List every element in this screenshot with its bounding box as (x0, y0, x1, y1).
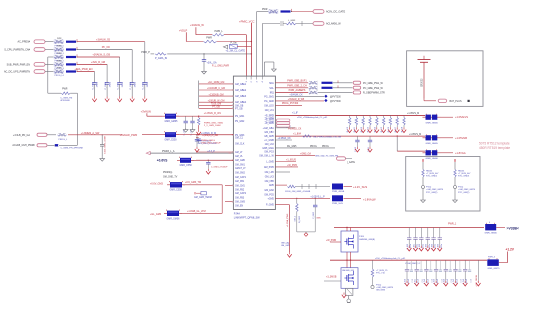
cap C81 (416, 260, 418, 269)
svg-text:GM_VL: GM_VL (235, 156, 244, 158)
svg-text:C_GM5: C_GM5 (92, 81, 94, 89)
cap C61 (369, 136, 371, 140)
svg-text:+3VALW_S5: +3VALW_S5 (96, 38, 111, 41)
rail2 wire (275, 135, 425, 137)
svg-text:100u: 100u (441, 244, 443, 248)
svg-text:+0.6VS: +0.6VS (157, 159, 168, 163)
RTC box (406, 157, 480, 212)
wire pin3 vert (256, 12, 258, 76)
svg-text:C_GM8: C_GM8 (130, 81, 132, 89)
battery box (407, 51, 483, 107)
cap C83b (440, 260, 442, 270)
svg-text:2R2u: 2R2u (122, 81, 124, 87)
svg-text:C_GM9: C_GM9 (143, 81, 145, 89)
wire (441, 137, 454, 139)
wire (296, 23, 313, 25)
wire (147, 115, 162, 117)
svg-text:+0.6_GM3_TM: +0.6_GM3_TM (185, 181, 201, 184)
arrow (464, 281, 466, 283)
svg-text:P_GMA_IN: P_GMA_IN (155, 57, 167, 60)
svg-text:PTC_710: PTC_710 (376, 273, 386, 275)
svg-text:PWR_P: PWR_P (141, 51, 150, 54)
jumper P_Sw (229, 44, 237, 48)
svg-text:+3VALW_PWR: +3VALW_PWR (120, 133, 138, 137)
wire (318, 91, 353, 93)
svg-text:2R2u: 2R2u (109, 81, 111, 87)
svg-text:GMGM6_GM: GMGM6_GM (342, 270, 354, 272)
cap C41 (192, 116, 194, 121)
IC top pin 1 (245, 76, 247, 79)
svg-text:c150_c78&battery-fab_CL_p01: c150_c78&battery-fab_CL_p01 (375, 257, 406, 260)
svg-text:+1.8GB_GL_LTM: +1.8GB_GL_LTM (187, 210, 206, 213)
cap C86 (464, 260, 466, 269)
svg-text:R_GBEPWRM_STR: R_GBEPWRM_STR (363, 91, 385, 94)
gnd diamond (304, 233, 308, 237)
junction (397, 135, 398, 136)
svg-text:P_GM5: P_GM5 (266, 205, 275, 207)
svg-text:+3_3MGB: +3_3MGB (326, 277, 337, 279)
svg-text:GM5_GM75: GM5_GM75 (488, 268, 501, 270)
svg-text:S_CPU_PWRBTN_CN#: S_CPU_PWRBTN_CN# (4, 49, 30, 52)
power arrow (119, 97, 121, 99)
svg-text:@PVT300: @PVT300 (330, 97, 341, 99)
wire gnd loop (263, 62, 265, 67)
svg-text:+3VL_GA: +3VL_GA (207, 61, 217, 64)
wire (45, 63, 54, 65)
svg-text:|_GATE: |_GATE (347, 161, 356, 164)
cap C84b (449, 260, 451, 270)
wire pin1 up (245, 35, 247, 76)
cap C83 (435, 260, 437, 269)
wire to power flag (77, 56, 120, 58)
wire L2 to IC (176, 134, 233, 136)
svg-text:+C100UB_GM: +C100UB_GM (208, 94, 223, 96)
svg-text:GM5_(A): GM5_(A) (281, 242, 289, 245)
capacitor C12 bank1 (119, 79, 121, 83)
cap C70 (408, 228, 410, 238)
svg-text:PWR_AGBEPS: PWR_AGBEPS (289, 89, 306, 92)
svg-text:+1.8VALW: +1.8VALW (363, 197, 376, 201)
wire (263, 67, 265, 76)
wire down (144, 42, 146, 79)
dual fet row C (423, 152, 441, 154)
wire (142, 134, 162, 136)
connector JO1 (313, 10, 324, 14)
power arrow (106, 97, 108, 99)
resistor R6 (58, 134, 67, 137)
resistor cluster (309, 87, 318, 90)
svg-text:PJ4A: PJ4A (234, 212, 240, 216)
svg-text:PROG: PROG (322, 146, 329, 148)
power arrow (198, 130, 200, 132)
svg-text:+3_3M_CL_GATE: +3_3M_CL_GATE (226, 50, 246, 53)
svg-text:ACIN_OC_GATE: ACIN_OC_GATE (326, 11, 345, 14)
svg-text:C_GM6: C_GM6 (105, 81, 107, 89)
cap C50 (100, 144, 104, 146)
cap C86b (469, 260, 471, 270)
junction (203, 53, 204, 54)
svg-text:+1.05VS_M: +1.05VS_M (407, 113, 419, 115)
rail2 res (303, 135, 312, 138)
cap C82 (425, 260, 427, 269)
Q2 bottom box (346, 288, 353, 295)
resistor R20 (196, 34, 212, 36)
svg-text:+3VALW_R_W5: +3VALW_R_W5 (288, 98, 305, 101)
svg-text:GM_GBE3: GM_GBE3 (235, 96, 247, 98)
arrow (425, 281, 427, 283)
svg-text:PWR_SUS: PWR_SUS (332, 203, 343, 205)
svg-text:GM3_GM1_2700UF: GM3_GM1_2700UF (201, 142, 221, 144)
junction (198, 116, 199, 117)
bead bar (322, 82, 333, 84)
svg-text:RTC_GM(2): RTC_GM(2) (426, 192, 438, 194)
svg-text:GMP_C550: GMP_C550 (165, 139, 178, 141)
svg-text:RTC_GM(2): RTC_GM(2) (458, 192, 470, 194)
wire tp 0 (275, 96, 324, 98)
wire PMIC vcc down (250, 26, 252, 76)
wire to power flag (77, 63, 107, 65)
gate arrow (223, 45, 227, 48)
wire 127.8 (275, 127, 295, 129)
arrow (416, 281, 418, 283)
svg-text:PWR: PWR (57, 53, 62, 55)
power arrow bottom (289, 252, 291, 254)
svg-text:T100_GM: T100_GM (211, 104, 221, 106)
pin tick (229, 152, 231, 154)
wire net2 (296, 186, 331, 188)
svg-text:2_V_GM3_100M: 2_V_GM3_100M (204, 125, 221, 127)
tp diamond (324, 95, 327, 98)
svg-text:+1.8VA_PWR: +1.8VA_PWR (286, 213, 289, 227)
svg-text:+3VALW_CK: +3VALW_CK (289, 94, 303, 97)
svg-text:+3VALW_W: +3VALW_W (190, 23, 204, 27)
wire L1 to IC (176, 115, 233, 117)
svg-text:AC_DC_UPS_PWRBTN: AC_DC_UPS_PWRBTN (4, 71, 30, 74)
wire (333, 87, 353, 89)
svg-text:+1.2V_SUS: +1.2V_SUS (353, 185, 367, 189)
svg-text:GM_PG3: GM_PG3 (264, 152, 274, 154)
svg-text:PC_GBE_PW1_W: PC_GBE_PW1_W (363, 82, 384, 85)
wire into Q1 (330, 241, 341, 243)
rail12 wire b (330, 259, 487, 261)
arrow (420, 246, 422, 248)
cap inline J7 (55, 144, 59, 146)
svg-text:+1.05ALVS: +1.05ALVS (455, 115, 468, 119)
svg-text:GM_GM3: GM_GM3 (235, 202, 246, 204)
svg-text:C_GM3_PH_4PF05N8: C_GM3_PH_4PF05N8 (61, 148, 84, 150)
bank arrow (396, 127, 398, 129)
RTC pull resistor 0 (422, 160, 424, 163)
svg-text:PWR_GBE_BUF1: PWR_GBE_BUF1 (287, 80, 307, 83)
svg-text:+VDLP: +VDLP (179, 29, 188, 33)
gnd (185, 128, 187, 130)
res network r1 (288, 185, 296, 188)
svg-text:GM_LDO: GM_LDO (264, 105, 274, 107)
wire down (106, 64, 108, 78)
inductor L2 (162, 134, 179, 136)
svg-text:GM_GBE4: GM_GBE4 (235, 102, 247, 104)
svg-text:GMR_GM06: GMR_GM06 (485, 232, 498, 234)
cap C85 (455, 260, 457, 269)
wire O2 (262, 23, 280, 25)
pink stub 0 (276, 119, 290, 121)
resistor R22 (151, 53, 155, 55)
wire right row 2 (275, 91, 308, 93)
bank resistor R50 (349, 115, 351, 117)
bank resistor R54 (376, 115, 378, 117)
wire 147.9 (275, 147, 335, 149)
svg-text:GMR_GM05: GMR_GM05 (426, 122, 439, 124)
ground (422, 198, 424, 200)
cap C60 (356, 136, 358, 140)
svg-text:+W_PWR: +W_PWR (326, 240, 336, 242)
svg-text:100u: 100u (435, 244, 437, 248)
inductor L1 (162, 115, 179, 117)
tp diamond (324, 99, 327, 102)
connector J2 (34, 48, 45, 52)
transistor Q2 (341, 268, 358, 289)
svg-text:GMGM6_GM(B): GMGM6_GM(B) (359, 239, 375, 241)
arrow (408, 246, 410, 248)
junction (196, 134, 197, 135)
svg-text:+3.3LB_PD_GA: +3.3LB_PD_GA (13, 134, 30, 137)
svg-text:GM_EN2: GM_EN2 (264, 190, 274, 192)
wire 172 (275, 171, 290, 173)
bank resistor R53 (369, 115, 371, 117)
svg-text:+C100UB_C_GM: +C100UB_C_GM (207, 88, 225, 90)
op IC U1 PMIC box (233, 76, 275, 209)
wire 204 from IC (275, 204, 289, 206)
resistor R8 (48, 92, 61, 94)
fet sw1 (485, 224, 496, 230)
cap C43 (196, 135, 198, 140)
main rail wire (275, 114, 425, 116)
wire down to J7 (76, 93, 78, 145)
svg-text:R100_GM_GM3_4.5GHB: R100_GM_GM3_4.5GHB (285, 191, 310, 193)
resistor R70 (372, 260, 374, 269)
svg-text:SDA: SDA (269, 82, 274, 85)
svg-text:5075 RT512 template: 5075 RT512 template (479, 142, 510, 146)
wire Q1 bottom (346, 252, 348, 268)
wire (45, 49, 54, 51)
inductor L3 (177, 159, 194, 161)
gnd (192, 128, 194, 130)
svg-text:PWR_4: PWR_4 (488, 257, 496, 259)
svg-text:GM_SW1: GM_SW1 (235, 165, 246, 167)
dual fet row B (423, 137, 441, 139)
svg-text:100u: 100u (422, 244, 424, 248)
wire Q1 top (346, 228, 348, 232)
fet sw2 (487, 259, 499, 266)
tick (454, 159, 456, 162)
bank resistor R52 (362, 115, 364, 117)
svg-text:GM_GB: GM_GB (235, 105, 244, 107)
bank resistor R51 (355, 115, 357, 117)
svg-text:GM5: GM5 (269, 185, 275, 187)
svg-text:SUB_PWR_PWR_EN: SUB_PWR_PWR_EN (7, 63, 31, 66)
bank arrow (362, 127, 364, 129)
bank arrow (403, 127, 405, 129)
svg-text:C_GM5: C_GM5 (313, 211, 315, 219)
svg-text:AC_PRES#: AC_PRES# (18, 41, 31, 44)
svg-text:PWR: PWR (57, 46, 62, 48)
arrow (415, 246, 417, 248)
svg-text:PS_GM1: PS_GM1 (235, 116, 245, 118)
wire to power flag (77, 41, 145, 43)
svg-text:+1.05VGB: +1.05VGB (455, 136, 467, 140)
vert resistor R30 (198, 116, 200, 117)
connector J5 (34, 70, 45, 74)
resistor+bead O1 (268, 9, 279, 13)
svg-text:GM_GM5: GM_GM5 (281, 245, 291, 247)
connector right 1 (353, 86, 361, 89)
resistor O2 (286, 22, 296, 25)
pink stub 2 (276, 125, 290, 127)
svg-text:GM_SW2: GM_SW2 (235, 172, 246, 174)
svg-text:GB_GM5: GB_GM5 (264, 136, 274, 138)
bank arrow (355, 127, 357, 129)
capacitor C20 (202, 59, 206, 61)
svg-text:GM_GM3_TERM: GM_GM3_TERM (194, 197, 212, 199)
wire (333, 82, 353, 84)
svg-text:4PF05N8: 4PF05N8 (60, 100, 70, 102)
svg-text:PROG: PROG (310, 146, 317, 148)
wire tp 1 (275, 100, 324, 102)
IC top pin 2 (250, 76, 252, 79)
svg-text:PWR: PWR (57, 61, 62, 63)
svg-text:GB_PWR3+16GA5_CW_GB: GB_PWR3+16GA5_CW_GB (313, 136, 342, 139)
wire pin4 vert (261, 24, 263, 76)
wire to power flag (77, 49, 132, 51)
vres under (296, 198, 298, 203)
jumper circle R70 (371, 285, 374, 288)
junction (346, 227, 347, 228)
svg-text:GM_CAP1: GM_CAP1 (235, 176, 247, 179)
svg-text:RTC_GND2: RTC_GND2 (426, 176, 438, 178)
svg-text:450R RT519 template: 450R RT519 template (479, 146, 510, 150)
svg-text:GM_LT: GM_LT (235, 152, 243, 154)
svg-text:GM_FBX: GM_FBX (264, 132, 274, 134)
svg-text:GM_GBE1: GM_GBE1 (235, 84, 247, 86)
caps inline (301, 184, 303, 189)
arrow (356, 147, 358, 149)
svg-text:+GM3_GA: +GM3_GA (300, 152, 311, 155)
capacitor C10 bank1 (94, 79, 96, 83)
power arrow Q2 left (343, 293, 345, 295)
bank arrow (383, 127, 385, 129)
left bus vertical (198, 81, 200, 109)
tick (422, 159, 424, 162)
svg-text:GM_CM1: GM_CM1 (235, 185, 246, 187)
svg-text:PWR3_GM1_TM40: PWR3_GM1_TM40 (204, 122, 224, 124)
svg-text:GMR_C550: GMR_C550 (180, 165, 193, 167)
rail3 link (396, 136, 398, 151)
svg-text:RTC_GND3: RTC_GND3 (458, 176, 470, 178)
svg-text:+1_8VA: +1_8VA (293, 132, 302, 135)
resistor R1 (DNP) with bead (54, 40, 65, 44)
svg-text:100u: 100u (410, 244, 412, 248)
wire (496, 227, 505, 229)
svg-text:PWR_GBE_2_CH: PWR_GBE_2_CH (287, 85, 307, 88)
svg-text:BAT_PLUS: BAT_PLUS (450, 100, 462, 103)
wire (150, 152, 233, 154)
svg-text:PROG_L: PROG_L (58, 139, 68, 141)
wire right row 1 (275, 87, 308, 89)
connector J6 (37, 133, 47, 136)
svg-text:>V33B<: >V33B< (507, 227, 519, 231)
junction (208, 160, 209, 161)
IC top pin 3 (256, 76, 258, 79)
connector J7 (37, 144, 47, 147)
arrow (406, 281, 408, 283)
cap C40 (185, 116, 187, 121)
svg-text:GM_LX3: GM_LX3 (265, 177, 275, 179)
svg-text:C_GM7: C_GM7 (118, 81, 120, 89)
wire (292, 11, 314, 13)
cap C31 (196, 137, 199, 139)
wire (441, 152, 454, 154)
svg-text:GM_PW5: GM_PW5 (264, 167, 275, 169)
power arrow (196, 147, 198, 149)
cap C72 (420, 228, 422, 238)
svg-text:PG_GM1: PG_GM1 (264, 97, 274, 99)
svg-text:+100UB_W_GM: +100UB_W_GM (208, 100, 225, 102)
svg-text:GM_L: GM_L (294, 215, 296, 221)
svg-text:+AC_100M_GM: +AC_100M_GM (208, 81, 225, 84)
wire (344, 197, 362, 199)
svg-text:+1.05VA_R_W: +1.05VA_R_W (201, 132, 217, 135)
bank resistor R58 (403, 115, 405, 117)
tick (146, 113, 148, 116)
svg-text:C150_GM3_100M: C150_GM3_100M (105, 136, 107, 154)
resistor R5 (DNP) with bead (54, 69, 65, 73)
cap C84 (445, 260, 447, 269)
svg-text:+1.8VGA: +1.8VGA (455, 151, 466, 155)
svg-text:PWR: PWR (62, 89, 68, 91)
svg-text:+3VALW: +3VALW (141, 110, 152, 114)
svg-text:IRQ: IRQ (270, 92, 274, 94)
tick (250, 23, 252, 26)
navy sq 4GSB (332, 184, 343, 190)
arrow in (146, 152, 150, 155)
wire (45, 71, 54, 73)
capacitor C11 bank1 (106, 79, 108, 83)
wire 198 from IC (275, 197, 330, 199)
ground (273, 67, 275, 69)
svg-text:+W_PW5: +W_PW5 (287, 165, 297, 167)
cap C81b (420, 260, 422, 270)
wire 185 net (275, 184, 287, 186)
bank resistor R56 (389, 115, 391, 117)
svg-text:PG_GM2: PG_GM2 (264, 101, 274, 103)
wire down (131, 50, 133, 79)
svg-text:PWR_L: PWR_L (215, 30, 224, 33)
svg-text:+PMIC_VCC: +PMIC_VCC (239, 19, 255, 23)
resistor cluster (309, 82, 318, 85)
cap C82b (430, 260, 432, 270)
svg-text:+C_GMB: +C_GMB (264, 140, 274, 142)
svg-text:PWR: PWR (57, 68, 62, 70)
connector JO2 (313, 22, 324, 26)
svg-text:GM_PG5: GM_PG5 (264, 194, 274, 196)
svg-text:GM_FB2: GM_FB2 (235, 189, 245, 191)
junction (251, 41, 252, 42)
bank arrow (376, 127, 378, 129)
battery BT1 symbol (418, 59, 431, 61)
svg-text:GM_FB5: GM_FB5 (265, 181, 275, 183)
resistor R2 (DNP) with bead (54, 47, 65, 51)
bank resistor R57 (396, 115, 398, 117)
